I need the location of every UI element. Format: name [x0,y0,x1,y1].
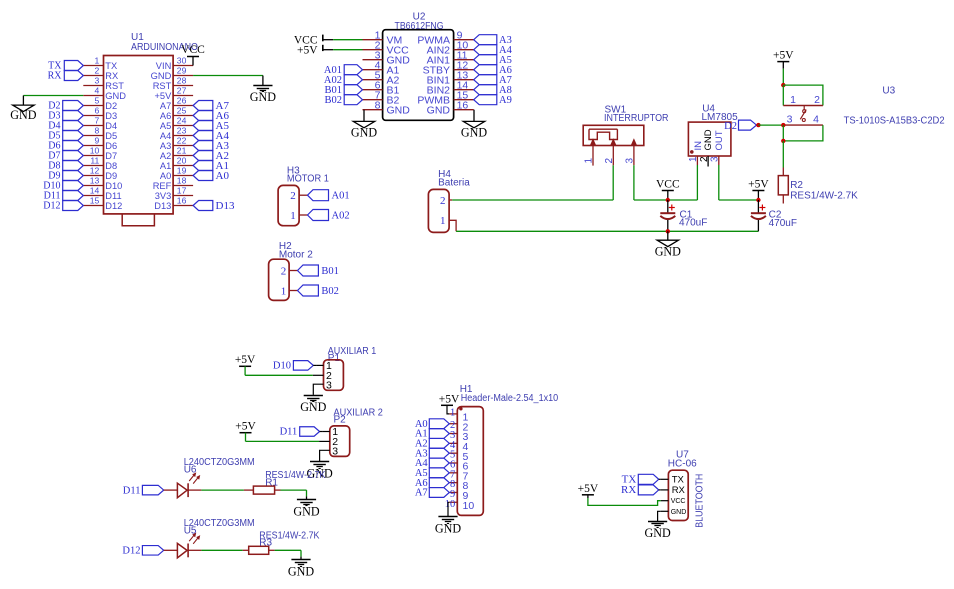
svg-text:13: 13 [90,176,100,186]
U1 pin 29 (GND) right [173,75,193,77]
ground GND (U7) [648,521,667,523]
svg-text:D8: D8 [105,161,117,171]
wire bottom bus C1 to C2 [668,230,759,232]
svg-text:U3: U3 [882,86,895,97]
U1 pin 11 (D8) left [83,165,103,167]
H1 pin 2 [449,423,457,425]
SW1 pin 1 [591,140,595,145]
U1 pin 1 (TX) left [83,65,103,67]
U7 pin RX [661,489,669,491]
svg-text:B02: B02 [321,286,339,297]
wire +5V to U2 pin2 [323,49,333,51]
U1 pin 12 (D9) left [83,175,103,177]
U2 pin 6 (B1) left [363,89,383,91]
svg-text:17: 17 [177,186,187,196]
U2 pin 10 (AIN2) right [454,49,474,51]
svg-text:+5V: +5V [297,45,318,57]
P1 pin 2 [313,374,324,376]
wire +5V to U7 VCC [588,498,661,505]
svg-text:GND: GND [671,509,687,516]
svg-text:Header-Male-2.54_1x10: Header-Male-2.54_1x10 [461,393,559,404]
U1 pin 6 (D3) left [83,115,103,117]
ground GND (R1) [297,499,316,501]
svg-text:25: 25 [177,106,187,116]
bluetooth module U7 HC-06 body [668,470,688,520]
resistor R1 RES1/4W-2.7K [244,489,254,491]
svg-text:3: 3 [787,114,793,126]
wire U7 GND to ground [658,511,661,521]
junction C1 bottom [666,229,670,233]
wire U4 pin3 to +5V node [718,165,720,200]
svg-text:10: 10 [463,500,475,512]
wire P1 pin3 to ground [313,384,323,395]
wire battery+ net to SW1 pin2 [452,199,613,201]
svg-text:2: 2 [604,158,615,164]
svg-text:D6: D6 [105,141,117,151]
svg-text:GND: GND [288,565,314,579]
svg-text:D12: D12 [105,201,122,211]
ground GND (C1) [667,231,669,240]
U4 pin1 indicator dot [690,150,694,154]
svg-text:+5V: +5V [235,420,256,432]
U1 pin 30 (VIN) right [173,65,193,67]
svg-text:+5V: +5V [748,178,769,190]
U1 pin 22 (A3) right [173,145,193,147]
junction U3 bottom [781,139,785,143]
svg-text:TS-1010S-A15B3-C2D2: TS-1010S-A15B3-C2D2 [844,115,945,126]
svg-text:A4: A4 [160,131,171,141]
wire U3 pins 3-4 loop [783,125,823,141]
svg-text:D11: D11 [105,191,121,201]
svg-text:2: 2 [281,265,287,277]
U1 pin 21 (A2) right [173,155,193,157]
ground GND (H1) [438,516,457,518]
svg-text:A6: A6 [160,111,171,121]
U1 pin 15 (D12) left [83,205,103,207]
svg-text:7: 7 [95,116,100,126]
svg-text:GND: GND [351,125,377,139]
header P1 AUXILIAR 1 body [324,360,344,391]
ground GND (U1 pin 4) [13,105,34,111]
U1 pin 10 (D7) left [83,155,103,157]
svg-text:2: 2 [290,190,296,202]
U1 pin 13 (D10) left [83,185,103,187]
U1 bottom notch [122,214,154,226]
svg-text:4: 4 [95,86,100,96]
U7 pin GND [661,510,669,512]
junction VCC node [668,199,698,201]
U3 switch lever [803,106,805,110]
wire LED U5 to R3 [188,549,201,551]
wire +5V to P1 pin2 [244,366,246,375]
svg-text:B02: B02 [324,95,342,106]
svg-text:A2: A2 [160,151,171,161]
svg-text:1: 1 [584,158,595,164]
SW1 pin 3 [632,140,636,145]
U1 pin 7 (D4) left [83,125,103,127]
svg-text:4: 4 [813,114,819,126]
svg-text:D13: D13 [154,201,171,211]
svg-text:RX: RX [621,484,636,496]
U7 pin VCC [661,500,669,502]
U2 pin 3 (GND) left [363,59,383,61]
wire VCC to U2 pin1 [323,39,333,41]
svg-text:GND: GND [293,504,319,518]
svg-text:REF: REF [153,181,172,191]
U1 pin 9 (D6) left [83,145,103,147]
wire R3 to ground [275,549,301,551]
svg-text:1: 1 [290,210,296,222]
wire D2 to U3 [758,124,783,126]
junction U3 top [781,83,785,87]
svg-text:D4: D4 [105,121,117,131]
U7 pin TX [661,478,669,480]
wire battery- bottom bus [456,230,668,232]
ground GND (U2 pin 16) [463,121,484,127]
svg-text:VCC: VCC [671,498,686,505]
U2 pin 14 (BIN2) right [454,89,474,91]
svg-text:A0: A0 [216,170,230,182]
resistor R2 RES1/4W-2.7K [782,168,784,176]
svg-text:24: 24 [177,116,187,126]
svg-text:D7: D7 [105,151,117,161]
svg-text:VCC: VCC [181,44,205,56]
U2 pin 2 (VCC) left [363,49,383,51]
svg-text:TX: TX [105,61,117,71]
P2 pin 2 [319,440,330,442]
U1 pin 8 (D5) left [83,135,103,137]
svg-text:RST: RST [153,81,172,91]
wire LED U6 to R1 [188,489,201,491]
svg-text:B01: B01 [321,266,339,277]
U1 pin 17 (3V3) right [173,195,193,197]
svg-text:8: 8 [95,126,100,136]
svg-text:D2: D2 [724,121,737,132]
svg-text:27: 27 [177,86,187,96]
U2 pin 8 (GND) left [363,109,383,111]
svg-text:D12: D12 [122,546,140,557]
svg-text:26: 26 [177,96,187,106]
svg-text:3: 3 [332,446,338,458]
svg-text:RST: RST [105,81,124,91]
H1 pin 5 [449,452,457,454]
header H1 Header-Male-2.54_1x10 body [457,407,483,516]
svg-text:2: 2 [95,66,100,76]
junction D2 flag [756,123,760,127]
svg-text:A9: A9 [499,95,512,106]
U1 pin 28 (RST) right [173,85,193,87]
svg-text:GND: GND [435,522,461,536]
svg-text:+5V: +5V [439,394,460,406]
U1 pin 5 (D2) left [83,105,103,107]
SW1 slider glyph [589,128,617,130]
svg-text:21: 21 [177,146,187,156]
svg-text:GND: GND [427,104,451,116]
P2 pin 1 [323,431,330,433]
U2 pin 7 (B2) left [363,99,383,101]
U3 contact row pins 3-4 [783,124,823,126]
wire +5V to P2 pin2 [245,433,247,442]
svg-text:RX: RX [672,485,686,496]
U1 pin 3 (RST) left [83,85,103,87]
svg-text:A3: A3 [160,141,171,151]
wire P2 pin3 to ground [320,450,330,461]
svg-text:9: 9 [95,136,100,146]
SW1 pin 2 [611,140,615,145]
switch SW1 INTERRUPTOR body [583,125,644,145]
svg-text:P2: P2 [334,415,347,426]
header H2 Motor 2 body [269,259,290,300]
U2 pin 11 (AIN1) right [454,59,474,61]
svg-text:A0: A0 [160,171,171,181]
svg-text:VCC: VCC [656,178,680,190]
wire U3 pins 1-2 loop [783,85,823,105]
svg-text:+5V: +5V [154,91,172,101]
svg-text:TX: TX [672,475,685,486]
wire U1 pin29 GND net [193,75,263,77]
svg-text:470uF: 470uF [679,217,707,228]
svg-text:GND: GND [387,104,411,116]
svg-text:14: 14 [90,186,100,196]
U2 pin 12 (STBY) right [454,69,474,71]
svg-text:20: 20 [177,156,187,166]
wire U2 pin16 to ground [473,110,475,122]
svg-text:3V3: 3V3 [155,191,172,201]
U1 pin 14 (D11) left [83,195,103,197]
svg-text:D3: D3 [105,111,117,121]
resistor R3 RES1/4W-2.7K [243,549,249,551]
H1 pin 6 [449,462,457,464]
svg-text:RES1/4W-2.7K: RES1/4W-2.7K [790,190,858,201]
svg-text:470uF: 470uF [769,218,797,229]
U2 pin 13 (BIN1) right [454,79,474,81]
U2 pin 4 (A1) left [363,69,383,71]
ground GND (P2) [310,461,329,463]
svg-text:19: 19 [177,166,187,176]
svg-text:16: 16 [457,100,469,112]
wire H1 pin10 to ground [448,502,449,517]
U1 pin 24 (A5) right [173,125,193,127]
svg-text:+5V: +5V [578,483,599,495]
svg-text:A02: A02 [332,211,350,222]
svg-text:RX: RX [105,71,118,81]
header P2 AUXILIAR 2 body [330,426,350,457]
U1 pin 4 (GND) left [83,95,103,97]
H1 pin 7 [449,472,457,474]
svg-text:MOTOR 1: MOTOR 1 [287,174,329,185]
wire +5V to U3 junction [782,69,784,85]
svg-text:6: 6 [95,106,100,116]
wire +5V to H1 pin1 [447,405,449,414]
wire D11 to LED U6 [164,489,178,491]
wire D12 to LED U5 [164,549,178,551]
wire U2 pin8 to ground [363,110,365,122]
svg-text:D11: D11 [123,485,141,496]
svg-text:22: 22 [177,136,187,146]
svg-text:15: 15 [90,196,100,206]
svg-text:A7: A7 [160,101,171,111]
H1 pin1 indicator dot [459,407,462,410]
svg-text:D5: D5 [105,131,117,141]
U2 pin 5 (A2) left [363,79,383,81]
svg-text:INTERRUPTOR: INTERRUPTOR [604,113,669,124]
capacitor C1 470uF [667,200,669,213]
svg-text:GND: GND [655,244,681,258]
U4 pin 1 [696,156,698,165]
H1 pin 9 [449,491,457,493]
H1 pin 8 [449,482,457,484]
svg-text:OUT: OUT [714,130,725,150]
junction U3 row2 left [781,123,785,127]
svg-text:+5V: +5V [773,50,794,62]
svg-text:D2: D2 [105,101,117,111]
regulator U4 LM7805 body [688,122,731,156]
LED U6 L240CTZ0G3MM [177,483,187,498]
svg-text:D9: D9 [105,171,117,181]
svg-text:A7: A7 [415,488,428,499]
IC U1 ARDUINONANO body [104,56,174,214]
svg-text:D10: D10 [105,181,122,191]
U1 pin 2 (RX) left [83,75,103,77]
svg-text:GND: GND [250,90,276,104]
U3 contact row pins 1-2 [783,105,823,107]
svg-text:30: 30 [177,56,187,66]
ground GND (P1) [304,395,323,397]
svg-text:1: 1 [688,156,699,162]
svg-text:BLUETOOTH: BLUETOOTH [695,474,706,528]
svg-text:+5V: +5V [235,354,256,366]
header H4 Bateria body [428,189,449,232]
wire R1 to ground [281,489,307,491]
U2 pin 1 (VM) left [363,39,383,41]
LED U5 L240CTZ0G3MM [177,543,187,558]
ground GND (U2 pin 8) [353,121,374,127]
svg-text:GND: GND [151,71,172,81]
svg-text:1: 1 [790,94,796,106]
U1 pin 18 (REF) right [173,185,193,187]
svg-text:16: 16 [177,196,187,206]
svg-text:RX: RX [48,71,63,82]
U4 pin 3 [718,156,720,165]
junction +5V node [756,198,760,202]
svg-text:10: 10 [90,146,100,156]
svg-text:HC-06: HC-06 [668,458,697,469]
wire SW1 pin3 to VCC node [633,165,635,200]
svg-text:GND: GND [703,129,714,150]
U1 pin 26 (A7) right [173,105,193,107]
svg-text:3: 3 [326,380,332,392]
svg-text:23: 23 [177,126,187,136]
U1 pin 25 (A6) right [173,115,193,117]
svg-text:18: 18 [177,176,187,186]
svg-text:D11: D11 [280,427,298,438]
svg-text:A01: A01 [332,191,350,202]
H1 pin 4 [449,442,457,444]
svg-text:3: 3 [624,158,635,164]
svg-text:1: 1 [95,56,100,66]
svg-text:1: 1 [281,285,287,297]
wire U1 pin4 GND net [23,95,83,97]
ground GND (R3) [291,559,310,561]
wire U4 pin1 to VCC node [696,165,698,200]
ground GND (U1 pin 29) [253,85,272,87]
svg-text:11: 11 [90,156,99,166]
svg-text:D13: D13 [216,200,235,212]
svg-text:VIN: VIN [156,61,172,71]
IC U2 TB6612FNG body [383,30,454,121]
svg-text:2: 2 [440,195,446,207]
header H3 MOTOR 1 body [278,185,299,225]
svg-text:12: 12 [90,166,100,176]
svg-text:28: 28 [177,76,187,86]
U1 pin 23 (A4) right [173,135,193,137]
svg-text:1: 1 [440,215,446,227]
H1 pin 10 [449,501,457,503]
svg-text:R2: R2 [790,180,803,191]
svg-text:5: 5 [95,96,100,106]
P1 pin 1 [317,364,324,366]
U1 pin 19 (A0) right [173,175,193,177]
U1 pin 16 (D13) right [173,205,193,207]
H1 pin 3 [449,433,457,435]
svg-text:3: 3 [95,76,100,86]
svg-text:A1: A1 [160,161,171,171]
svg-text:A5: A5 [160,121,171,131]
U2 pin 9 (PWMA) right [454,39,474,41]
svg-text:Bateria: Bateria [438,178,470,189]
svg-text:3: 3 [709,156,720,162]
svg-text:GND: GND [461,125,487,139]
svg-text:2: 2 [814,94,820,106]
U1 pin 27 (+5V) right [173,95,193,97]
svg-text:GND: GND [300,400,326,414]
svg-text:29: 29 [177,66,187,76]
svg-text:8: 8 [375,100,381,112]
svg-text:D12: D12 [43,201,60,212]
U2 pin 16 (GND) right [454,109,474,111]
svg-text:GND: GND [105,91,126,101]
U2 pin 15 (PWMB) right [454,99,474,101]
svg-text:GND: GND [10,108,36,122]
U1 pin 20 (A1) right [173,165,193,167]
svg-text:1: 1 [450,407,455,418]
svg-text:D10: D10 [273,361,291,372]
svg-text:10: 10 [445,499,456,510]
wire U3 to R2 [782,141,784,168]
H1 pin 1 [449,413,457,415]
capacitor C2 470uF [757,200,759,213]
svg-text:GND: GND [645,526,671,540]
